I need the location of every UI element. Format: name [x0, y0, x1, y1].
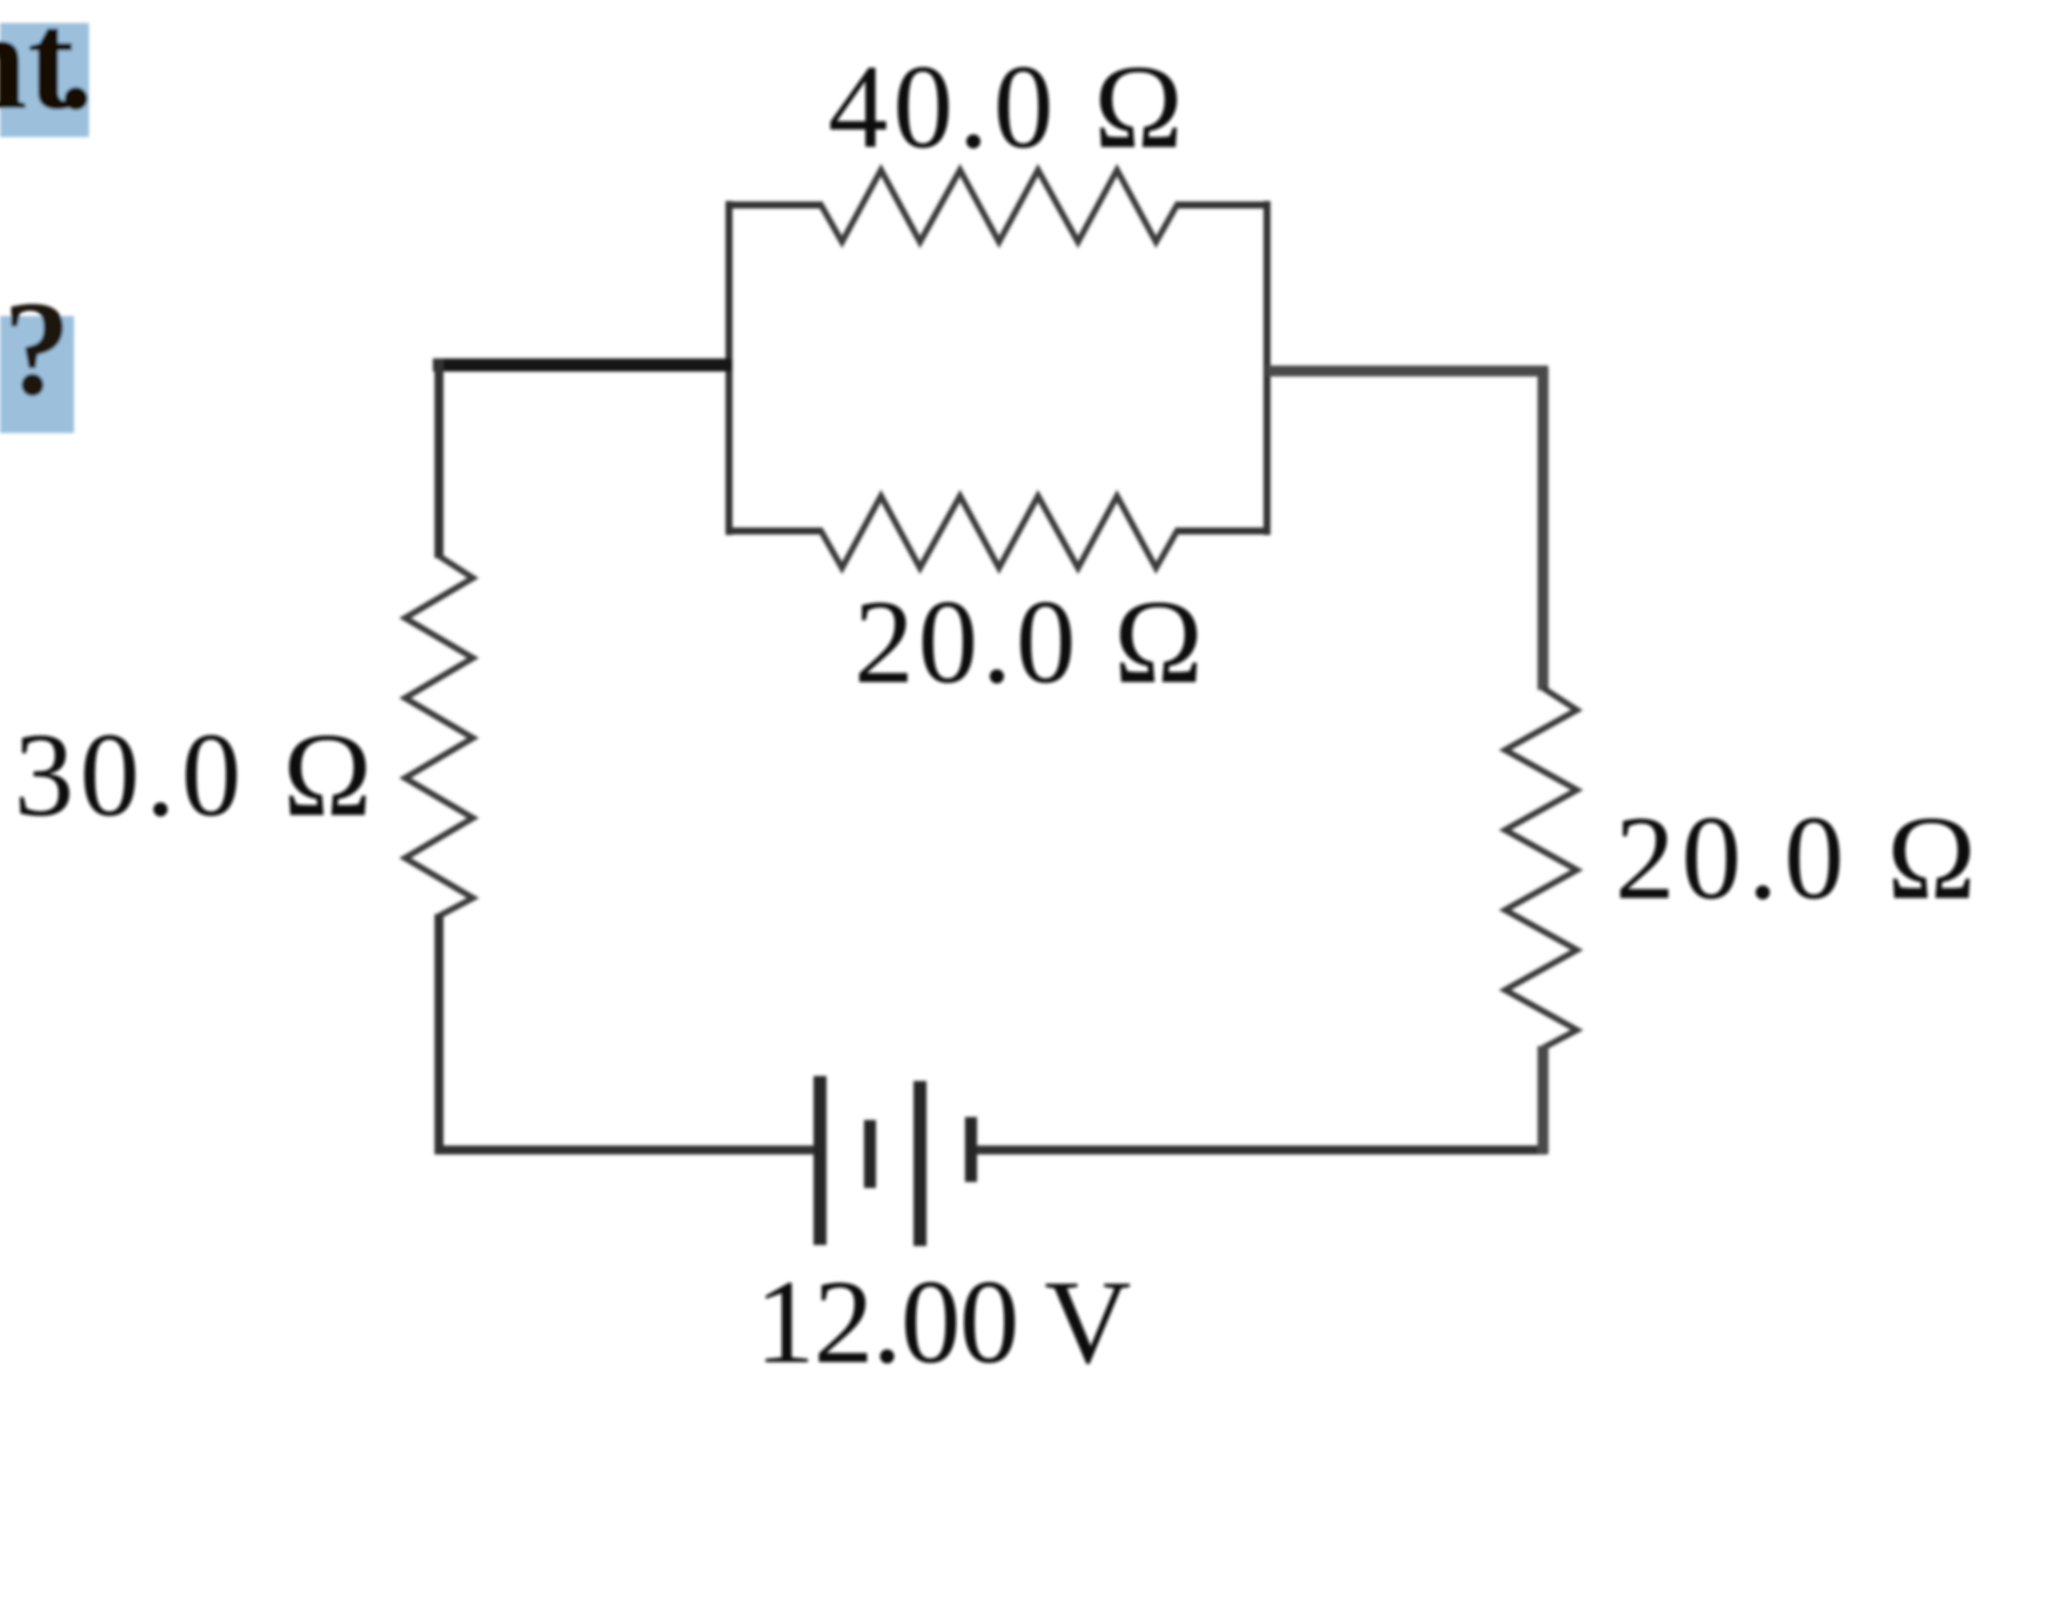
svg-text:?: ?	[3, 274, 71, 424]
svg-text:nt.: nt.	[0, 0, 94, 139]
svg-text:40.0 Ω: 40.0 Ω	[828, 40, 1183, 173]
svg-text:20.0 Ω: 20.0 Ω	[854, 575, 1203, 708]
svg-text:30.0 Ω: 30.0 Ω	[14, 708, 372, 841]
svg-text:20.0 Ω: 20.0 Ω	[1615, 791, 1976, 924]
svg-text:12.00 V: 12.00 V	[755, 1255, 1131, 1388]
